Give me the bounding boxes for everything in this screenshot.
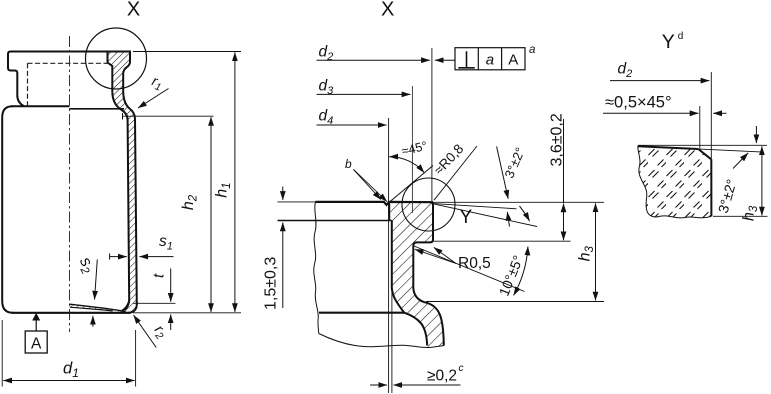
bottom extension (right): [713, 215, 768, 217]
neck section hatch: [389, 202, 444, 347]
svg-text:≈0,5×45°: ≈0,5×45°: [605, 94, 672, 112]
h3 bottom extension (middle): [426, 301, 604, 303]
d2 extension line: [431, 48, 433, 202]
inner bottom sliver lines: [70, 299, 130, 312]
tilted surface line 2: [432, 203, 538, 226]
label r1: [149, 72, 165, 93]
title Y d: [662, 31, 684, 53]
dimension h3 (right): [741, 146, 762, 221]
blob right edge: [710, 159, 712, 216]
svg-text:R0,5: R0,5: [458, 255, 491, 272]
svg-text:3°±2°: 3°±2°: [715, 177, 740, 215]
outer edge flange and wall: [413, 202, 444, 345]
shoulder inner surface: [319, 312, 404, 314]
d4/min-wall extension line: [388, 118, 390, 393]
dimension s2: [74, 254, 99, 327]
detail circle X: [86, 28, 147, 89]
svg-text:d1: d1: [63, 360, 79, 381]
dimension 10deg +-5deg: [414, 246, 528, 298]
shoulder line left: [11, 105, 70, 107]
leader r1: [138, 89, 169, 109]
hidden line horizontal: [28, 62, 108, 64]
dimension approx 0,5 x 45deg: [603, 94, 727, 114]
bottom sliver hatch: [70, 304, 127, 312]
svg-text:h3: h3: [577, 245, 597, 261]
dimension 3deg +-2deg (middle): [497, 145, 530, 226]
inner bottom extension for t: [133, 302, 176, 304]
top surface extension right: [433, 201, 604, 203]
dimension h2: [180, 117, 211, 312]
flange top line: [8, 52, 131, 55]
svg-text:s2: s2: [74, 254, 99, 277]
dimension d4: [317, 108, 387, 128]
svg-text:1,5±0,3: 1,5±0,3: [263, 257, 280, 310]
blob wavy boundary: [638, 146, 712, 218]
dimension s1: [110, 233, 174, 260]
tilted surface extension: [700, 149, 761, 152]
d3 extension line: [411, 86, 413, 213]
wall section hatch: [108, 52, 137, 313]
svg-text:≈45°: ≈45°: [400, 139, 428, 159]
label r2 + leader: [134, 315, 171, 347]
title X (middle): [381, 0, 394, 21]
flange/neck outline left half: [8, 54, 24, 106]
dimension h1: [214, 52, 235, 312]
break line bottom wavy: [319, 334, 444, 348]
svg-text:b: b: [345, 157, 352, 171]
title X (left): [127, 0, 140, 20]
blob top surface: [638, 146, 699, 149]
chamfer edge: [698, 149, 711, 159]
svg-text:t: t: [151, 273, 168, 278]
h2 extension: [123, 113, 214, 120]
svg-text:d: d: [678, 31, 684, 42]
svg-text:h2: h2: [180, 194, 200, 210]
svg-text:3,6±0,2: 3,6±0,2: [549, 113, 566, 166]
svg-text:≥0,2: ≥0,2: [427, 368, 457, 385]
label R0,5 + leaders: [415, 247, 491, 272]
svg-text:10°±5°: 10°±5°: [496, 253, 527, 298]
centerline: [69, 36, 71, 332]
svg-text:X: X: [127, 0, 140, 20]
dimension d2 (middle): [317, 44, 456, 64]
horizontal reference line: [638, 144, 767, 146]
dimension >=0,2 c: [370, 363, 464, 385]
hidden line vertical: [27, 63, 29, 105]
svg-text:s1: s1: [159, 233, 173, 253]
svg-text:3°±2°: 3°±2°: [502, 145, 528, 180]
dimension t: [151, 269, 171, 331]
svg-text:h1: h1: [214, 182, 234, 197]
svg-text:d4: d4: [319, 108, 334, 128]
dimension 3,6 +-0,2: [549, 113, 566, 240]
bore lip edge: [388, 202, 390, 221]
chamfer extension lines: [700, 72, 712, 159]
svg-text:A: A: [508, 52, 518, 69]
body inner descending edge: [404, 313, 427, 346]
dimension d2 (right): [610, 61, 709, 81]
section inner edge: [108, 52, 130, 311]
svg-text:≈R0,8: ≈R0,8: [431, 141, 466, 178]
svg-text:r2: r2: [149, 322, 170, 342]
sealing surface line: [316, 202, 434, 205]
svg-text:Y: Y: [662, 31, 675, 53]
h1 top extension: [133, 51, 241, 53]
dimension h3 (middle): [577, 203, 597, 300]
shoulder line right (section): [70, 108, 125, 110]
dimension d1: [2, 320, 135, 387]
tilted surface line 1: [432, 203, 517, 208]
svg-text:d2: d2: [618, 61, 633, 81]
label approx R0,8: [431, 141, 477, 200]
label approx 45deg: [400, 139, 428, 159]
svg-text:h3: h3: [741, 205, 761, 221]
feature control frame: [455, 44, 535, 70]
surface extension thin left: [278, 201, 316, 203]
svg-text:X: X: [381, 0, 394, 21]
detail circle Y: [402, 178, 455, 231]
inner wall extension line: [391, 288, 393, 393]
svg-text:a: a: [486, 51, 494, 68]
dimension 1,5 +-0,3: [263, 187, 283, 311]
inner ledge line: [278, 220, 392, 222]
label Y: [460, 207, 473, 228]
svg-text:a: a: [529, 44, 535, 56]
chamfer extension line: [389, 166, 433, 203]
svg-text:A: A: [31, 336, 42, 353]
dimension d3: [317, 78, 411, 98]
svg-text:c: c: [459, 363, 464, 374]
bottom extension: [133, 312, 241, 314]
wall inner edge: [392, 221, 404, 313]
section outer edge: [123, 52, 137, 313]
bottom line: [12, 312, 130, 314]
body outline left: [2, 106, 13, 312]
datum A: [25, 313, 47, 353]
svg-text:r1: r1: [149, 72, 165, 93]
45deg arc: [389, 157, 424, 173]
glass blob fill: [638, 146, 712, 218]
break line left wavy: [314, 202, 319, 334]
flange underside extension: [433, 240, 571, 242]
dimension 3deg +-2deg (right): [715, 126, 757, 215]
label b + leaders: [345, 157, 387, 202]
